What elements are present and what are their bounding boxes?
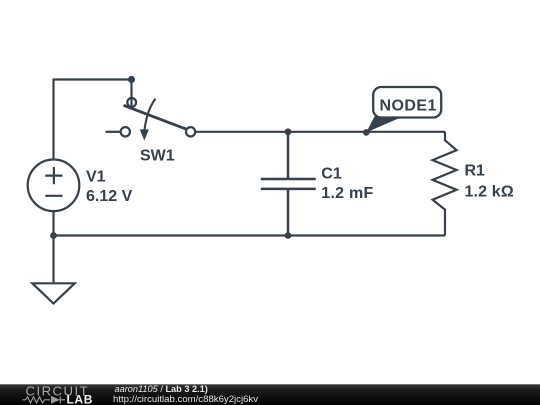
junction dot capacitor bottom <box>285 232 292 239</box>
svg-text:6.12 V: 6.12 V <box>86 188 133 205</box>
capacitor C1 <box>261 132 316 236</box>
switch SW1 top throw circle <box>127 98 136 107</box>
wire bottom net <box>54 234 446 236</box>
switch SW1 blade <box>124 105 190 130</box>
junction dot V1 bottom <box>50 232 57 239</box>
svg-text:R1: R1 <box>465 162 486 179</box>
resistor R1 <box>433 132 457 236</box>
node NODE1 flag box <box>373 87 441 118</box>
svg-text:http://circuitlab.com/c88k6y2j: http://circuitlab.com/c88k6y2jcj6kv <box>113 394 258 405</box>
svg-text:SW1: SW1 <box>140 148 175 165</box>
svg-text:V1: V1 <box>86 168 106 185</box>
logo squiggle resistor <box>23 397 66 404</box>
wire top horizontal net <box>195 131 445 133</box>
wire switch top terminal lead <box>130 80 132 107</box>
svg-text:1.2 mF: 1.2 mF <box>321 185 373 202</box>
logo diode triangle <box>51 396 60 404</box>
svg-text:aaron1105 / Lab 3 2.1): aaron1105 / Lab 3 2.1) <box>115 384 208 394</box>
wire V1 bottom to ground <box>52 211 54 283</box>
wire switch left throw stub <box>106 131 121 133</box>
switch SW1 arc arrow <box>145 99 156 130</box>
svg-text:NODE1: NODE1 <box>380 98 437 115</box>
svg-text:LAB: LAB <box>67 393 93 405</box>
switch SW1 arrowhead <box>140 129 149 140</box>
wire V1 top to switch <box>54 80 132 160</box>
junction dot top-left <box>128 76 135 83</box>
node NODE1 pointer <box>366 117 403 133</box>
svg-text:C1: C1 <box>321 166 342 183</box>
node NODE1 dot <box>363 129 370 136</box>
voltage source V1 <box>28 160 80 212</box>
ground <box>32 283 74 303</box>
svg-text:1.2 kΩ: 1.2 kΩ <box>465 183 514 200</box>
switch SW1 throw terminals <box>121 127 196 136</box>
junction dot capacitor top <box>285 128 292 135</box>
